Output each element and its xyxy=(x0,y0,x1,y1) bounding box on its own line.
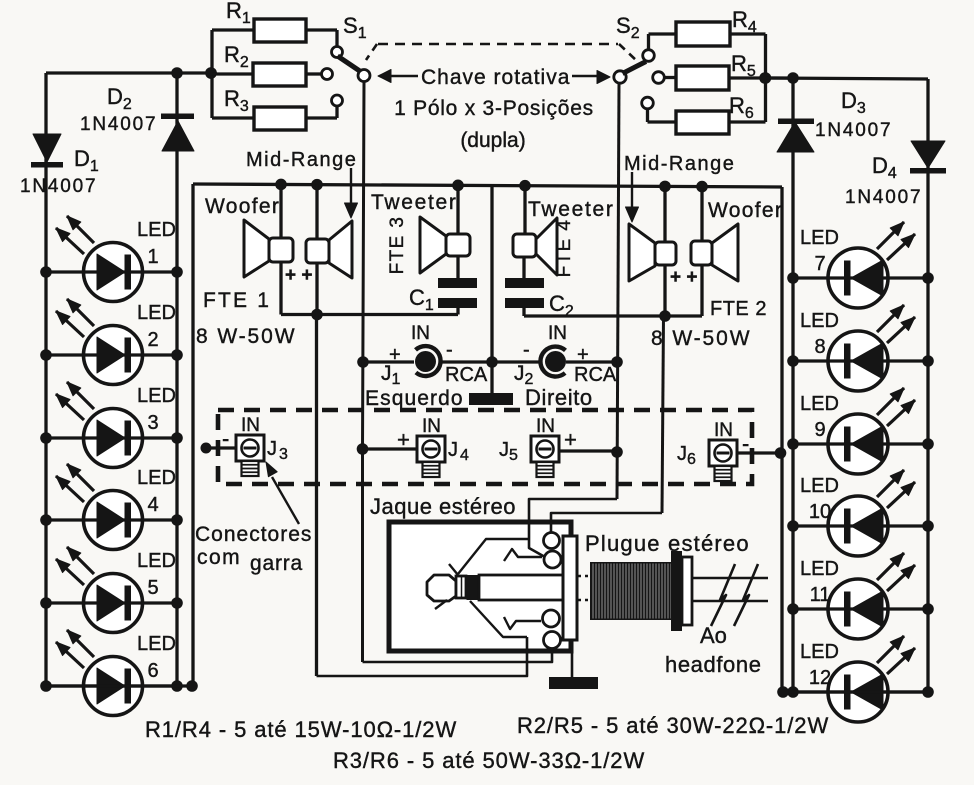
svg-text:12: 12 xyxy=(809,667,831,689)
svg-text:RCA: RCA xyxy=(574,364,617,386)
svg-text:Ao: Ao xyxy=(700,623,727,648)
svg-text:Plugue estéreo: Plugue estéreo xyxy=(585,531,750,556)
svg-text:3: 3 xyxy=(279,446,288,463)
svg-text:6: 6 xyxy=(147,660,158,682)
svg-text:J: J xyxy=(267,438,277,460)
svg-text:LED: LED xyxy=(800,475,839,497)
svg-text:-: - xyxy=(446,339,453,361)
svg-text:Conectores: Conectores xyxy=(195,523,312,546)
svg-text:+: + xyxy=(577,344,589,366)
svg-text:Tweeter: Tweeter xyxy=(528,198,615,221)
svg-text:LED: LED xyxy=(137,467,176,489)
svg-text:9: 9 xyxy=(814,419,825,441)
svg-text:LED: LED xyxy=(137,219,176,241)
svg-text:IN: IN xyxy=(548,323,567,344)
svg-text:IN: IN xyxy=(411,323,430,344)
svg-text:LED: LED xyxy=(800,558,839,580)
svg-text:IN: IN xyxy=(422,416,441,437)
svg-text:IN: IN xyxy=(241,415,260,436)
svg-text:IN: IN xyxy=(714,420,733,441)
svg-text:R3/R6 - 5 até 50W-33Ω-1/2W: R3/R6 - 5 até 50W-33Ω-1/2W xyxy=(333,748,645,773)
svg-text:Mid-Range: Mid-Range xyxy=(624,153,735,175)
svg-text:garra: garra xyxy=(250,552,303,575)
svg-text:4: 4 xyxy=(460,447,469,464)
svg-text:Jaque estéreo: Jaque estéreo xyxy=(370,494,516,519)
svg-text:1 Pólo x 3-Posições: 1 Pólo x 3-Posições xyxy=(394,97,594,120)
svg-text:11: 11 xyxy=(810,584,831,606)
svg-text:LED: LED xyxy=(137,302,176,324)
svg-text:8 W-50W: 8 W-50W xyxy=(196,325,296,348)
svg-text:LED: LED xyxy=(137,550,176,572)
svg-text:FTE 2: FTE 2 xyxy=(710,298,767,320)
svg-text:LED: LED xyxy=(800,310,839,332)
svg-text:1N4007: 1N4007 xyxy=(20,176,97,197)
svg-text:headfone: headfone xyxy=(665,652,762,677)
svg-text:+: + xyxy=(564,427,577,452)
svg-text:R2/R5 - 5 até 30W-22Ω-1/2W: R2/R5 - 5 até 30W-22Ω-1/2W xyxy=(517,713,829,738)
svg-text:1N4007: 1N4007 xyxy=(845,187,922,208)
svg-text:IN: IN xyxy=(536,416,555,437)
svg-text:Woofer: Woofer xyxy=(205,195,280,218)
svg-text:10: 10 xyxy=(809,501,831,523)
svg-text:R1/R4 - 5 até 15W-10Ω-1/2W: R1/R4 - 5 até 15W-10Ω-1/2W xyxy=(145,717,457,742)
svg-text:LED: LED xyxy=(800,227,839,249)
svg-text:8 W-50W: 8 W-50W xyxy=(651,327,751,350)
svg-text:FTE 4: FTE 4 xyxy=(554,219,575,278)
svg-text:Esquerdo: Esquerdo xyxy=(365,387,464,410)
svg-text:RCA: RCA xyxy=(445,364,488,386)
svg-text:LED: LED xyxy=(137,633,176,655)
svg-text:Tweeter: Tweeter xyxy=(371,191,458,214)
svg-text:1N4007: 1N4007 xyxy=(80,114,157,135)
svg-text:Woofer: Woofer xyxy=(708,199,783,222)
svg-text:Mid-Range: Mid-Range xyxy=(246,149,357,171)
svg-text:5: 5 xyxy=(147,577,158,599)
svg-text:(dupla): (dupla) xyxy=(460,129,525,152)
svg-text:4: 4 xyxy=(147,494,158,516)
svg-text:1N4007: 1N4007 xyxy=(815,120,892,141)
svg-text:LED: LED xyxy=(800,393,839,415)
svg-text:1: 1 xyxy=(147,246,158,268)
svg-text:J: J xyxy=(448,439,458,461)
svg-text:com: com xyxy=(197,546,241,569)
svg-text:+ +: + + xyxy=(670,267,697,288)
svg-text:+ +: + + xyxy=(285,265,312,286)
svg-text:Chave rotativa: Chave rotativa xyxy=(421,66,570,89)
svg-text:-: - xyxy=(523,339,530,361)
svg-text:FTE 1: FTE 1 xyxy=(203,289,271,312)
svg-text:3: 3 xyxy=(147,412,158,434)
svg-text:Direito: Direito xyxy=(525,385,593,410)
svg-text:7: 7 xyxy=(814,253,825,275)
svg-text:2: 2 xyxy=(147,329,158,351)
svg-text:LED: LED xyxy=(800,641,839,663)
svg-text:LED: LED xyxy=(137,385,176,407)
svg-text:8: 8 xyxy=(814,336,825,358)
svg-text:FTE 3: FTE 3 xyxy=(387,216,408,275)
